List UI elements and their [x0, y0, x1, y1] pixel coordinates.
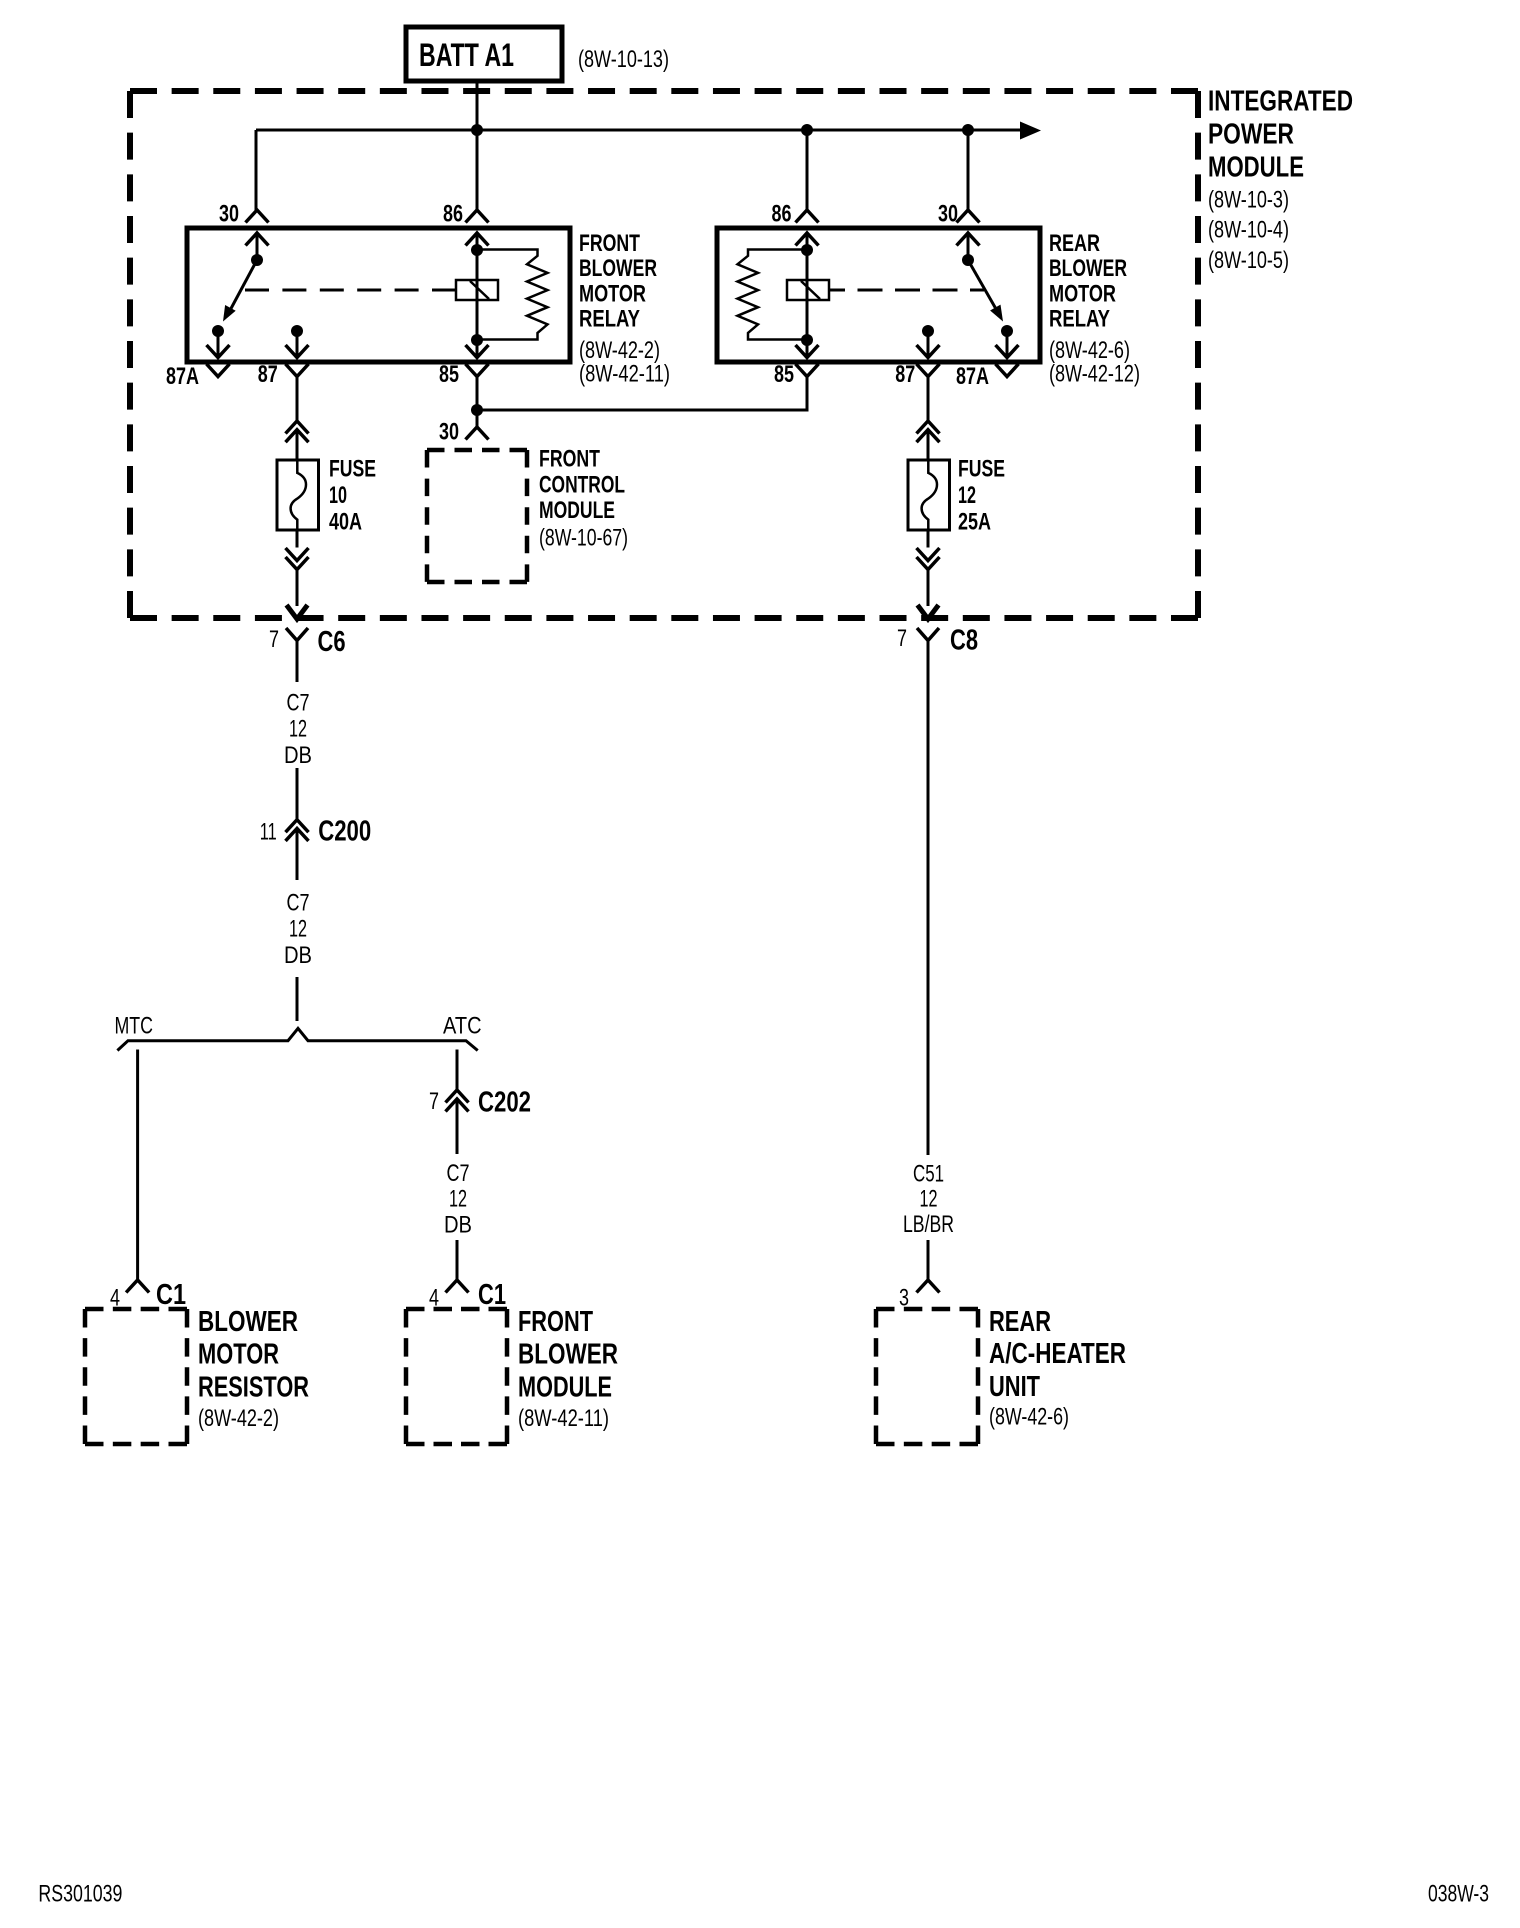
svg-text:(8W-42-2): (8W-42-2) [198, 1405, 279, 1432]
svg-text:038W-3: 038W-3 [1428, 1881, 1489, 1908]
rear relay coil symbol [787, 280, 829, 300]
svg-text:REAR: REAR [1049, 230, 1100, 257]
front relay name label [579, 230, 670, 388]
wire C51 lower segment to rear a/c-heater unit [927, 1240, 930, 1280]
wire to IPM border exit C8 [927, 570, 930, 607]
fuse 10 40A symbol [277, 460, 319, 530]
pin 86 internal wire [476, 233, 479, 250]
arrowhead of bus wire [1020, 122, 1041, 140]
svg-text:(8W-10-3): (8W-10-3) [1208, 186, 1289, 213]
svg-text:POWER: POWER [1208, 119, 1294, 151]
svg-text:RS301039: RS301039 [38, 1881, 122, 1908]
rear a/c-heater unit dashed box [876, 1309, 978, 1444]
svg-text:FUSE: FUSE [329, 456, 376, 483]
svg-text:MOTOR: MOTOR [1049, 280, 1116, 307]
svg-text:MTC: MTC [115, 1013, 154, 1040]
pin 86 internal wire (rear) [806, 233, 809, 250]
wire ATC branch down [456, 1050, 459, 1091]
svg-text:BLOWER: BLOWER [198, 1306, 298, 1338]
svg-text:UNIT: UNIT [989, 1371, 1040, 1403]
svg-text:BLOWER: BLOWER [579, 255, 657, 282]
front blower motor relay box [187, 228, 570, 362]
pin 87 connector forks (rear relay bottom) [917, 345, 940, 377]
pin 30 internal wire [256, 233, 259, 260]
svg-text:MOTOR: MOTOR [579, 280, 646, 307]
svg-text:40A: 40A [329, 509, 362, 536]
svg-text:RELAY: RELAY [579, 306, 640, 333]
svg-text:LB/BR: LB/BR [903, 1211, 954, 1238]
svg-text:(8W-42-12): (8W-42-12) [1049, 361, 1140, 388]
svg-text:3: 3 [899, 1285, 909, 1312]
wire below C6 [296, 641, 299, 683]
front blower module name label [518, 1306, 618, 1432]
svg-text:C7: C7 [287, 889, 310, 916]
wire junction to rear 85 [477, 377, 807, 411]
svg-text:RESISTOR: RESISTOR [198, 1372, 309, 1404]
svg-text:DB: DB [284, 942, 312, 969]
svg-text:ATC: ATC [443, 1013, 482, 1040]
rear blower motor relay box [717, 228, 1040, 362]
pin 85 connector forks (rear relay bottom) [796, 345, 819, 377]
wire front 87 down to connector [296, 377, 299, 421]
rear relay switch arm arrowhead [990, 305, 1003, 322]
svg-text:87: 87 [895, 361, 915, 388]
wire BATT A1 down to bus [476, 81, 479, 130]
svg-text:RELAY: RELAY [1049, 306, 1110, 333]
wire MTC branch down to blower motor resistor [136, 1050, 139, 1281]
wire rear 87 down to connector [927, 377, 930, 421]
arrow at C8 border crossing [918, 605, 939, 619]
pin 30 connector forks (rear relay top) [957, 210, 980, 246]
pin 87A connector forks (rear relay bottom) [996, 345, 1019, 377]
power source box BATT A1 [406, 27, 562, 81]
pin 86 connector forks (rear relay top) [796, 210, 819, 246]
svg-text:87A: 87A [166, 363, 199, 390]
svg-text:C7: C7 [447, 1160, 470, 1187]
svg-text:INTEGRATED: INTEGRATED [1208, 86, 1353, 118]
wire label C51 12 LB/BR [903, 1160, 954, 1238]
svg-text:(8W-42-11): (8W-42-11) [579, 361, 670, 388]
svg-text:BLOWER: BLOWER [1049, 255, 1127, 282]
svg-text:12: 12 [958, 482, 976, 509]
svg-text:FRONT: FRONT [539, 445, 600, 472]
pin 87A connector forks (front relay bottom) [207, 345, 230, 377]
svg-text:C7: C7 [287, 690, 310, 717]
svg-text:12: 12 [289, 916, 307, 943]
rear relay name label [1049, 230, 1140, 388]
junction dot bus/rear 86 [801, 124, 813, 136]
node: rear relay common dot [962, 254, 974, 266]
wire above branch brace [296, 977, 299, 1021]
rear a/c-heater unit name label [989, 1306, 1126, 1430]
node: front relay 87 dot [291, 325, 303, 337]
blower motor resistor name label [198, 1306, 309, 1432]
wire C6 to C200 upper segment [296, 768, 299, 820]
front relay switch arm [231, 260, 257, 309]
junction dot at BATT/bus [471, 124, 483, 136]
svg-text:MODULE: MODULE [518, 1372, 612, 1404]
pin 3 connector fork (rear a/c-heater unit) [917, 1280, 940, 1293]
connector C6 fork below border [286, 628, 308, 641]
pin 30 internal wire (rear) [967, 233, 970, 260]
wire rear 87 to box edge [927, 331, 930, 357]
svg-text:DB: DB [444, 1212, 472, 1239]
blower motor resistor dashed box [85, 1309, 187, 1444]
pin 4 connector fork (front blower module) [446, 1280, 469, 1293]
svg-text:REAR: REAR [989, 1306, 1051, 1338]
wire fuse 12 down [927, 530, 930, 548]
front control module name label [539, 445, 628, 551]
svg-text:12: 12 [289, 716, 307, 743]
svg-text:FUSE: FUSE [958, 456, 1005, 483]
wire below C202 [456, 1099, 459, 1154]
svg-text:C51: C51 [913, 1160, 944, 1187]
front relay coil wire 86 to 85 [476, 250, 479, 340]
fuse 12 25A symbol [908, 460, 950, 530]
svg-text:C1: C1 [478, 1279, 506, 1311]
svg-text:30: 30 [219, 200, 239, 227]
svg-text:87A: 87A [956, 363, 989, 390]
svg-text:(8W-10-5): (8W-10-5) [1208, 247, 1289, 274]
svg-text:7: 7 [429, 1088, 439, 1115]
svg-text:85: 85 [774, 361, 794, 388]
svg-text:BLOWER: BLOWER [518, 1338, 618, 1370]
in-line connector double chevron above fuse 10 [286, 421, 309, 442]
integrated power module dashed border [130, 91, 1198, 618]
rear relay coil wire [806, 250, 809, 340]
svg-text:FRONT: FRONT [579, 230, 640, 257]
node: rear relay 87A contact dot [1001, 325, 1013, 337]
svg-text:(8W-10-67): (8W-10-67) [539, 525, 628, 552]
svg-text:25A: 25A [958, 509, 991, 536]
pin 30 connector fork (front control module) [466, 427, 489, 440]
junction dot bus/rear 30 [962, 124, 974, 136]
svg-text:7: 7 [897, 625, 907, 652]
svg-text:C200: C200 [318, 815, 371, 847]
pin 4 connector fork (blower motor resistor) [126, 1280, 149, 1293]
svg-text:DB: DB [284, 742, 312, 769]
svg-text:4: 4 [110, 1285, 120, 1312]
front relay switch arm arrowhead [223, 305, 236, 322]
svg-text:FRONT: FRONT [518, 1306, 593, 1338]
svg-text:86: 86 [443, 200, 463, 227]
wire label C7 12 DB lower [444, 1160, 472, 1239]
wire rear 87A to box edge [1006, 331, 1009, 357]
in-line connector C202 double chevron [446, 1090, 469, 1112]
svg-text:30: 30 [439, 418, 459, 445]
wire junction to front control module pin 30 [476, 410, 479, 427]
front control module dashed box [427, 450, 527, 582]
svg-text:C6: C6 [318, 626, 346, 658]
svg-text:(8W-10-13): (8W-10-13) [578, 46, 669, 73]
rear relay switch arm [968, 260, 995, 308]
fuse 10 40A label [329, 456, 376, 536]
wire connector to fuse 12 [927, 430, 930, 460]
pin 86 connector forks (front relay top) [466, 210, 489, 246]
svg-text:MOTOR: MOTOR [198, 1338, 279, 1370]
svg-text:85: 85 [439, 361, 459, 388]
front relay mechanical link dashed [245, 289, 456, 292]
svg-text:12: 12 [449, 1186, 467, 1213]
svg-text:(8W-10-4): (8W-10-4) [1208, 217, 1289, 244]
wire below C200 [296, 828, 299, 880]
wire bus to front relay pin 86 [476, 130, 479, 210]
pin 87 connector forks (front relay bottom) [286, 345, 309, 377]
svg-text:10: 10 [329, 482, 347, 509]
wire front 85 to box edge [476, 340, 479, 357]
in-line connector double chevron below fuse 12 [917, 548, 940, 570]
wire fuse 10 down [296, 530, 299, 548]
node: front relay 87A contact dot [212, 325, 224, 337]
svg-text:86: 86 [772, 200, 792, 227]
wire bus to rear relay pin 30 [967, 130, 970, 210]
pin 85 connector forks (front relay bottom) [466, 345, 489, 377]
rear relay coil suppression resistor [738, 250, 808, 340]
svg-text:(8W-42-6): (8W-42-6) [989, 1403, 1069, 1430]
wire 87 dot to box edge [296, 331, 299, 357]
svg-text:C1: C1 [156, 1279, 186, 1311]
front blower module dashed box [406, 1309, 507, 1444]
arrow at C6 border crossing [287, 605, 308, 619]
svg-text:MODULE: MODULE [1208, 152, 1304, 184]
svg-text:(8W-42-11): (8W-42-11) [518, 1405, 609, 1432]
svg-text:C8: C8 [950, 625, 978, 657]
svg-text:7: 7 [269, 626, 279, 653]
node junction 85 wires [471, 404, 483, 416]
wire rear 85 to box edge [806, 340, 809, 357]
svg-text:A/C-HEATER: A/C-HEATER [989, 1338, 1126, 1370]
node: rear coil bottom dot [801, 334, 813, 346]
svg-text:4: 4 [429, 1285, 439, 1312]
node: front relay common dot [251, 254, 263, 266]
node: front coil bottom dot [471, 334, 483, 346]
wire bus to rear relay pin 86 [806, 130, 809, 210]
wire connector to fuse 10 [296, 430, 299, 460]
wire label C7 12 DB upper [284, 690, 312, 770]
branch brace MTC/ATC [117, 1028, 477, 1050]
integrated power module title [1208, 86, 1353, 274]
svg-text:12: 12 [920, 1185, 938, 1212]
in-line connector C200 double chevron [286, 820, 309, 841]
front relay coil symbol [456, 280, 498, 300]
front relay coil suppression resistor [477, 250, 548, 340]
wire ATC lower segment to front blower module [456, 1240, 459, 1280]
wire C8 long run down [927, 641, 930, 1156]
svg-text:C202: C202 [478, 1087, 531, 1119]
rear relay mechanical link dashed [829, 289, 984, 292]
svg-text:30: 30 [938, 200, 958, 227]
fuse 12 25A label [958, 456, 1005, 536]
svg-text:CONTROL: CONTROL [539, 471, 625, 498]
svg-text:MODULE: MODULE [539, 497, 615, 524]
node: rear coil top dot [801, 244, 813, 256]
wire bus to front relay pin 30 [255, 130, 258, 210]
pin 30 connector forks (front relay top) [246, 210, 269, 246]
node: rear relay 87 dot [922, 325, 934, 337]
node: front coil top dot [471, 244, 483, 256]
in-line connector double chevron below fuse 10 [286, 548, 309, 570]
svg-text:11: 11 [260, 819, 277, 846]
svg-text:BATT A1: BATT A1 [419, 37, 514, 73]
svg-text:87: 87 [258, 361, 278, 388]
wire front 85 down to junction [476, 377, 479, 411]
wire label C7 12 DB middle [284, 889, 312, 969]
wire to IPM border exit C6 [296, 570, 299, 607]
wire 87A contact to box edge [217, 331, 220, 357]
in-line connector double chevron above fuse 12 [917, 421, 940, 442]
bus wire with arrow [256, 129, 1020, 132]
connector C8 fork below border [917, 628, 939, 641]
